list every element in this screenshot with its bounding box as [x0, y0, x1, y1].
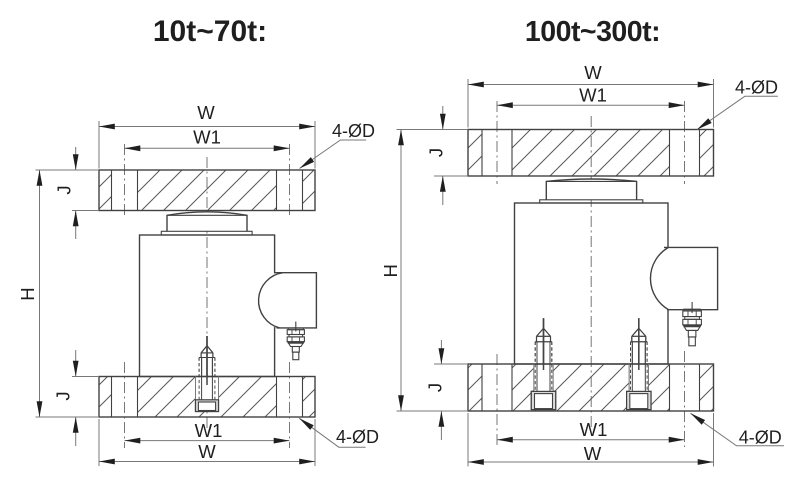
- top mounting plate (right): bolt-hole walls: [482, 130, 700, 177]
- cable housing (left): [257, 273, 316, 328]
- leader 4-ØD (right bottom): [691, 413, 785, 446]
- dimension W (right top): [468, 84, 714, 86]
- svg-text:J: J: [425, 148, 446, 157]
- svg-text:W1: W1: [193, 127, 221, 148]
- load cell body (left): [140, 235, 275, 377]
- bottom mounting plate (left): bolt clearance recess: [196, 377, 218, 411]
- top mounting plate (left): bolt-hole walls: [112, 170, 303, 211]
- anchor stud bolt (left, center): [196, 336, 219, 412]
- centerline: right top plate holes: [497, 101, 685, 184]
- load button dome (left): [167, 212, 247, 232]
- svg-text:100t~300t:: 100t~300t:: [525, 16, 660, 48]
- button collar (left): [161, 231, 252, 235]
- bottom mounting plate (left): bolt-hole walls: [112, 377, 303, 418]
- dimension J (right top): [442, 106, 444, 205]
- dimension W1 (left bottom): [125, 440, 290, 442]
- centerline: right view vertical axis: [590, 116, 592, 430]
- svg-text:W: W: [584, 443, 602, 464]
- leader 4-ØD (left bottom): [299, 418, 365, 447]
- centerline: left view vertical axis: [206, 157, 208, 428]
- leader 4-ØD (left top): [300, 140, 367, 169]
- top mounting plate (right): outline: [468, 130, 714, 177]
- bottom mounting plate (left): hatched section: [99, 377, 315, 418]
- top mounting plate (left): hatched section: [99, 170, 315, 211]
- bottom mounting plate (right): outline: [468, 364, 714, 411]
- svg-text:4-ØD: 4-ØD: [336, 427, 379, 447]
- bottom mounting plate (left): outline: [99, 377, 315, 418]
- leader 4-ØD (right top): [697, 96, 778, 129]
- bottom mounting plate (right): bolt clearance recess: [531, 365, 651, 410]
- svg-text:W1: W1: [195, 420, 223, 441]
- extension lines (right view): [397, 79, 714, 467]
- load button dome (right): [546, 179, 636, 200]
- dimension W1 (left top): [125, 147, 290, 149]
- svg-text:4-ØD: 4-ØD: [735, 78, 778, 98]
- dimension W (right bottom): [468, 461, 714, 463]
- button collar (right): [540, 200, 643, 203]
- svg-text:W1: W1: [579, 84, 607, 105]
- top mounting plate (right): hatched section: [468, 130, 714, 177]
- dimension J (left bottom): [75, 350, 77, 446]
- dimension H (right): [400, 130, 402, 412]
- bottom mounting plate (right): bolt-hole walls: [482, 364, 700, 411]
- svg-text:J: J: [425, 383, 446, 392]
- top mounting plate (left): outline: [99, 170, 315, 211]
- svg-text:J: J: [53, 185, 74, 194]
- dimension H (left): [39, 170, 41, 417]
- svg-text:J: J: [53, 391, 74, 400]
- svg-text:4-ØD: 4-ØD: [332, 121, 375, 141]
- svg-text:W: W: [584, 62, 602, 83]
- bottom mounting plate (right): hatched section: [468, 364, 714, 411]
- dimension W1 (right bottom): [497, 439, 685, 441]
- dimension W1 (right top): [497, 104, 685, 106]
- cable housing (right): [650, 247, 717, 309]
- svg-text:4-ØD: 4-ØD: [739, 427, 782, 447]
- svg-text:H: H: [17, 287, 38, 300]
- svg-text:W: W: [197, 102, 215, 123]
- cable gland (right): [683, 302, 702, 346]
- anchor stud bolt (right, left one): [531, 318, 555, 409]
- load cell body (right): [515, 203, 669, 364]
- dimension W (left top): [99, 126, 315, 128]
- anchor stud bolt overlay (left): [196, 336, 219, 412]
- svg-text:W: W: [198, 441, 216, 462]
- dimension W (left bottom): [99, 461, 315, 463]
- centerline: left top plate holes: [125, 144, 290, 216]
- svg-text:W1: W1: [580, 419, 608, 440]
- cable gland (left): [287, 322, 304, 360]
- svg-text:H: H: [380, 264, 401, 277]
- anchor stud bolt (right, right one): [627, 318, 651, 409]
- anchor stud bolts overlay (right): [531, 318, 555, 409]
- dimension J (left top): [75, 147, 77, 239]
- centerline: left bottom plate holes: [125, 362, 290, 448]
- extension lines (left view): [36, 121, 316, 466]
- dimension J (right bottom): [440, 340, 442, 440]
- centerline: right bottom plate holes: [497, 351, 685, 447]
- svg-text:10t~70t:: 10t~70t:: [153, 15, 267, 48]
